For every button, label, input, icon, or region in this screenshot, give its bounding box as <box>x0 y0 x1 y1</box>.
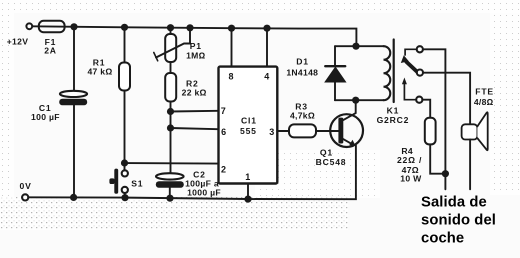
svg-text:1000 µF: 1000 µF <box>187 187 221 197</box>
potentiometer P1 <box>154 28 206 62</box>
arrow NO direction <box>404 82 416 100</box>
svg-text:100 µF: 100 µF <box>31 112 60 122</box>
svg-text:1N4148: 1N4148 <box>286 67 318 77</box>
resistor R2 <box>165 62 207 173</box>
wire pin 2 <box>125 162 219 165</box>
wire pin 1 <box>247 184 249 200</box>
svg-text:D1: D1 <box>296 56 309 66</box>
svg-text:S1: S1 <box>131 178 143 188</box>
wire bottom 0V rail <box>28 146 356 200</box>
svg-text:+12V: +12V <box>7 37 29 47</box>
node pin 4 <box>263 25 270 32</box>
wire NC to output <box>423 49 446 189</box>
svg-text:22Ω /: 22Ω / <box>397 155 422 165</box>
svg-text:K1: K1 <box>387 105 400 115</box>
node pins 7 junction <box>167 108 174 115</box>
svg-text:6: 6 <box>221 127 226 137</box>
node pin1 bottom <box>244 196 251 203</box>
svg-text:BC548: BC548 <box>316 157 347 167</box>
node C1 bottom <box>70 194 77 201</box>
node C2 bottom <box>166 195 173 202</box>
wire common to speaker <box>423 73 470 125</box>
relay contact NC <box>417 46 423 52</box>
svg-text:10 W: 10 W <box>400 173 422 183</box>
svg-text:CI1: CI1 <box>241 116 257 126</box>
node pin 8 <box>228 25 235 32</box>
IC U1 timer CI1 555 <box>219 67 278 184</box>
relay arm <box>406 62 417 72</box>
switch S1 <box>109 169 143 198</box>
wire relay top <box>335 45 384 47</box>
svg-text:555: 555 <box>240 126 257 136</box>
node relay top <box>352 43 359 50</box>
node S1 bottom <box>121 194 128 201</box>
wire NO to R4 <box>422 100 430 118</box>
wire pin 6 <box>171 128 219 129</box>
wire pin 7 <box>171 110 219 113</box>
svg-text:4: 4 <box>264 71 269 81</box>
resistor R1 <box>87 27 130 170</box>
svg-text:4/8Ω: 4/8Ω <box>474 97 494 107</box>
svg-text:3: 3 <box>269 127 274 137</box>
relay contact NO <box>416 97 422 103</box>
node collector <box>352 97 359 104</box>
node pin 6 junction <box>167 124 174 131</box>
wire pin 8 <box>231 28 233 66</box>
node R1 bottom / pin2 <box>121 159 128 166</box>
svg-text:47 kΩ: 47 kΩ <box>87 67 112 77</box>
relay coil K1 <box>377 40 410 126</box>
svg-text:Salida de: Salida de <box>421 195 487 211</box>
wire top +12V rail <box>32 26 356 46</box>
scan noise bands (decorative) <box>0 197 348 230</box>
wire pin 4 <box>266 28 268 66</box>
node P1 wiper <box>186 24 193 31</box>
resistor R4 <box>397 118 445 184</box>
diode D1 <box>286 46 345 100</box>
svg-text:coche: coche <box>421 231 464 247</box>
node after fuse <box>70 23 77 30</box>
svg-text:0V: 0V <box>20 181 32 191</box>
svg-text:22 kΩ: 22 kΩ <box>182 88 207 98</box>
capacitor C2 <box>156 170 221 199</box>
resistor R3 <box>289 101 339 137</box>
speaker FTE <box>462 87 494 190</box>
terminal +12V <box>26 23 32 29</box>
svg-text:2A: 2A <box>44 46 57 56</box>
fuse F1 <box>39 21 65 32</box>
capacitor C1 <box>31 27 87 198</box>
node R1 top <box>121 24 128 31</box>
svg-text:7: 7 <box>221 106 226 116</box>
svg-text:sonido del: sonido del <box>421 213 496 229</box>
wire NC stub <box>405 49 417 55</box>
svg-text:FTE: FTE <box>475 87 494 97</box>
relay contact common <box>417 70 423 76</box>
svg-text:G2RC2: G2RC2 <box>377 115 410 125</box>
node P1 top <box>167 24 174 31</box>
svg-text:2: 2 <box>221 164 226 174</box>
node R4 output <box>442 170 449 177</box>
svg-text:4,7kΩ: 4,7kΩ <box>290 111 315 121</box>
wire relay bottom <box>335 99 384 101</box>
terminal 0V <box>22 194 28 200</box>
transistor Q1 <box>316 100 363 167</box>
svg-text:1MΩ: 1MΩ <box>186 51 206 61</box>
wire pin 3 <box>278 130 289 132</box>
svg-text:8: 8 <box>228 71 233 81</box>
svg-text:1: 1 <box>245 172 250 182</box>
